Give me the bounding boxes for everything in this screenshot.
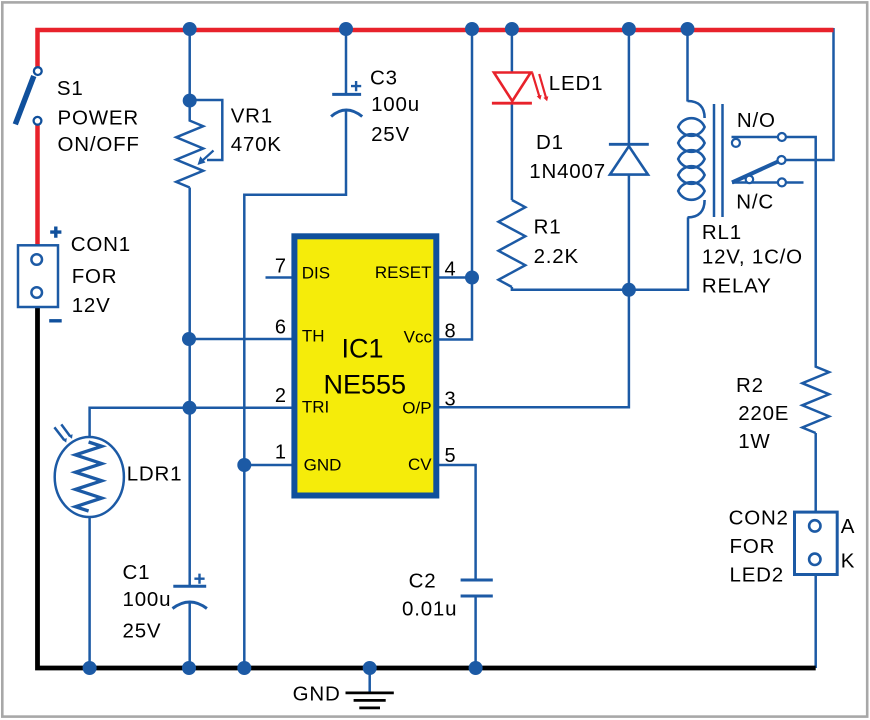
svg-text:Vcc: Vcc bbox=[404, 328, 433, 347]
svg-text:DIS: DIS bbox=[302, 264, 330, 283]
svg-text:0.01u: 0.01u bbox=[402, 598, 457, 621]
svg-text:12V, 1C/O: 12V, 1C/O bbox=[702, 245, 803, 268]
svg-text:6: 6 bbox=[275, 317, 286, 339]
svg-text:IC1: IC1 bbox=[342, 333, 384, 363]
svg-text:ON/OFF: ON/OFF bbox=[58, 133, 140, 156]
svg-text:CV: CV bbox=[408, 455, 432, 474]
svg-text:NE555: NE555 bbox=[324, 370, 407, 400]
svg-text:N/O: N/O bbox=[737, 109, 776, 132]
svg-text:220E: 220E bbox=[738, 402, 789, 425]
svg-text:25V: 25V bbox=[371, 123, 410, 146]
svg-text:CON2: CON2 bbox=[729, 506, 789, 529]
svg-text:LED2: LED2 bbox=[730, 563, 784, 586]
svg-text:C3: C3 bbox=[370, 66, 398, 89]
svg-text:1: 1 bbox=[275, 442, 286, 464]
svg-text:R1: R1 bbox=[534, 216, 562, 239]
svg-text:100u: 100u bbox=[123, 588, 172, 611]
svg-text:3: 3 bbox=[445, 389, 456, 411]
svg-text:FOR: FOR bbox=[72, 265, 118, 288]
svg-text:8: 8 bbox=[445, 321, 456, 343]
svg-text:100u: 100u bbox=[371, 93, 420, 116]
svg-text:RL1: RL1 bbox=[702, 221, 742, 244]
svg-text:VR1: VR1 bbox=[231, 104, 273, 127]
svg-text:N/C: N/C bbox=[736, 191, 774, 214]
svg-text:2: 2 bbox=[275, 385, 286, 407]
svg-text:K: K bbox=[841, 550, 855, 573]
svg-text:TRI: TRI bbox=[302, 398, 329, 417]
svg-text:4: 4 bbox=[445, 259, 456, 281]
svg-text:CON1: CON1 bbox=[71, 233, 131, 256]
svg-text:LED1: LED1 bbox=[549, 72, 603, 95]
svg-text:1W: 1W bbox=[738, 430, 770, 453]
svg-text:POWER: POWER bbox=[58, 106, 139, 129]
svg-text:FOR: FOR bbox=[730, 535, 776, 558]
svg-text:A: A bbox=[841, 515, 855, 538]
svg-text:LDR1: LDR1 bbox=[127, 463, 183, 486]
svg-text:S1: S1 bbox=[57, 77, 84, 100]
svg-text:RESET: RESET bbox=[375, 263, 432, 282]
svg-text:TH: TH bbox=[302, 326, 325, 345]
svg-text:470K: 470K bbox=[231, 133, 282, 156]
svg-text:RELAY: RELAY bbox=[702, 275, 772, 298]
svg-text:12V: 12V bbox=[72, 294, 111, 317]
svg-text:7: 7 bbox=[275, 256, 286, 278]
svg-text:D1: D1 bbox=[536, 131, 564, 154]
svg-text:5: 5 bbox=[445, 445, 456, 467]
svg-text:25V: 25V bbox=[123, 620, 162, 643]
svg-text:GND: GND bbox=[304, 455, 342, 474]
svg-text:GND: GND bbox=[293, 683, 341, 706]
svg-text:C2: C2 bbox=[409, 570, 437, 593]
svg-text:O/P: O/P bbox=[402, 399, 431, 418]
svg-text:1N4007: 1N4007 bbox=[529, 160, 606, 183]
svg-text:R2: R2 bbox=[736, 374, 764, 397]
svg-text:C1: C1 bbox=[123, 561, 151, 584]
svg-text:2.2K: 2.2K bbox=[534, 245, 579, 268]
